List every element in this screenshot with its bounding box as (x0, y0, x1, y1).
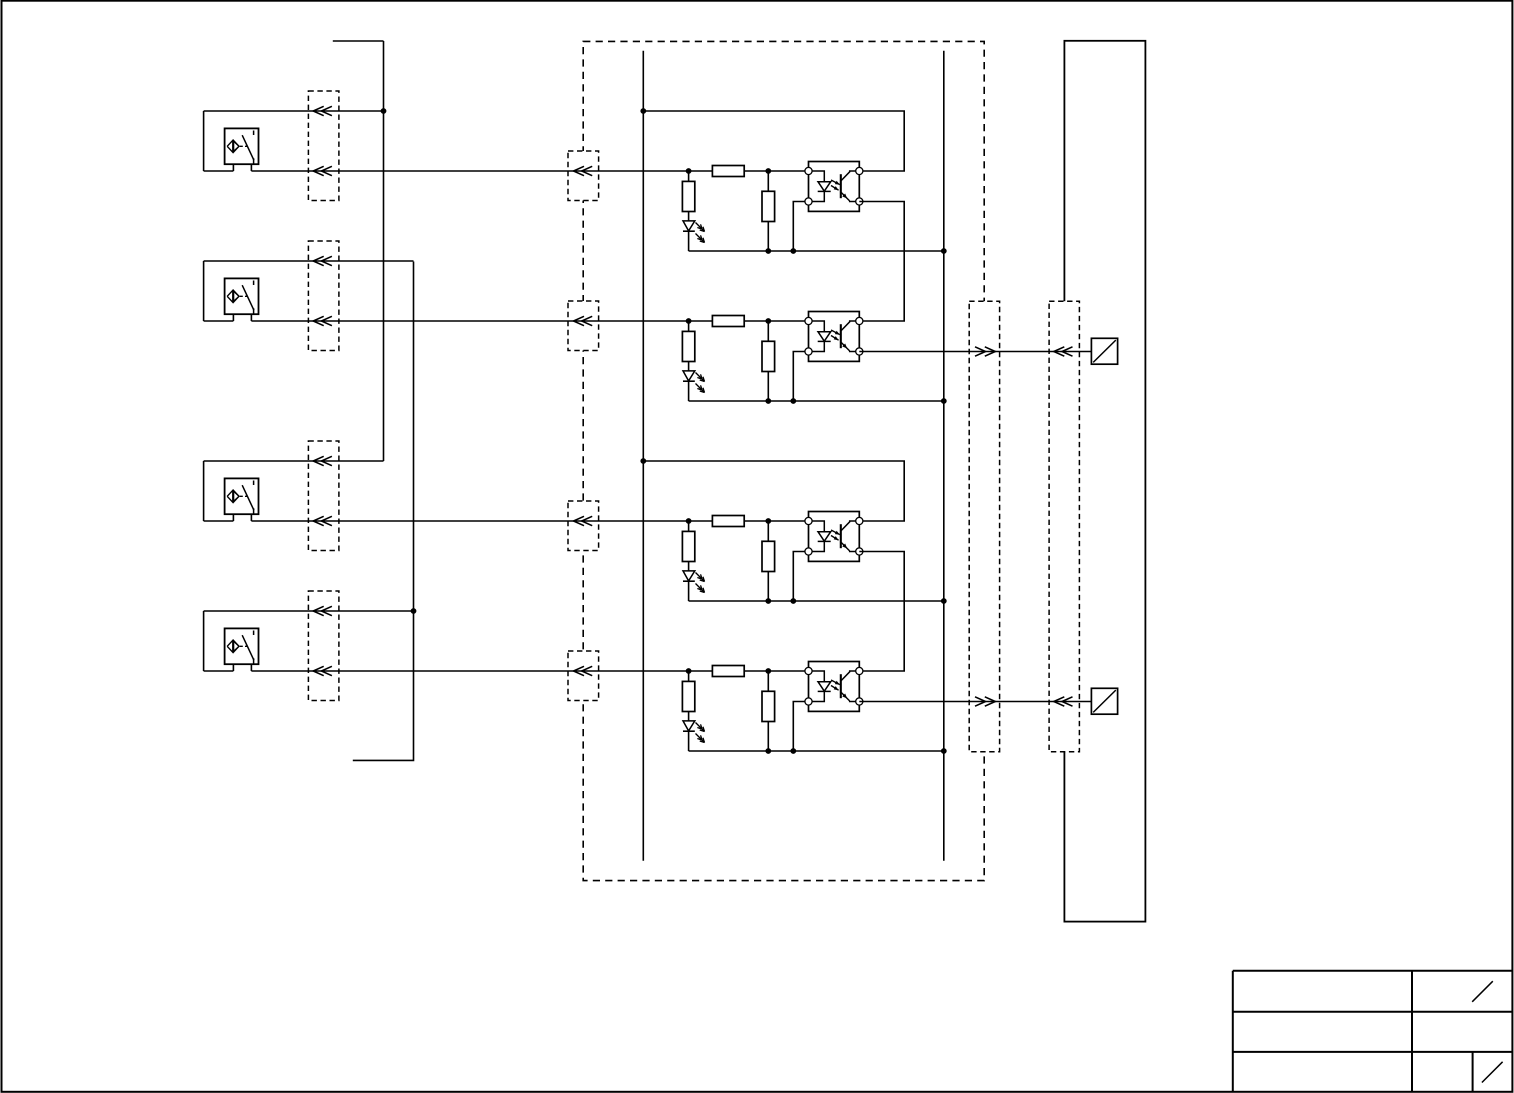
wire 0V return row 2 (689, 400, 944, 402)
connector X11 PCB input terminal (568, 151, 599, 201)
resistor R21 (series) (712, 316, 744, 327)
wire output channel 2 to PLC (859, 701, 1091, 703)
PCB board outline (dashed) (583, 41, 984, 880)
connector X21 PLC input terminal (1049, 301, 1079, 752)
resistor R41 (series) (712, 666, 744, 677)
wire LED D1 cathode down (688, 231, 690, 251)
optocoupler U2 pins (805, 317, 863, 355)
wire LED D3 cathode down (688, 581, 690, 601)
LED D4 status indicator (683, 721, 705, 743)
proximity sensor B3 (204, 461, 259, 521)
wire sensor B4 supply (204, 610, 414, 612)
wire sensor B1 supply (204, 110, 384, 112)
resistor R23 (parallel) (762, 321, 775, 401)
resistor R31 (series) (712, 516, 744, 527)
connector X2 contact arrows (313, 256, 332, 325)
connector X13 contact arrow (574, 516, 593, 525)
PLC input channel 1 symbol (1091, 338, 1117, 364)
wire sensor B2 supply (204, 260, 414, 262)
LED D3 status indicator (683, 571, 705, 593)
optocoupler U3 (809, 512, 860, 562)
wire +V feed group 1 (643, 111, 904, 171)
proximity sensor B1 (204, 111, 259, 171)
connector X12 contact arrow (574, 316, 593, 325)
connector X3 plug-socket (sensor cable) (308, 441, 339, 551)
optocoupler U1 (809, 162, 860, 212)
optocoupler U2 (809, 312, 860, 362)
connector X14 contact arrow (574, 666, 593, 675)
wire optocoupler U3 cathode to 0V (793, 552, 808, 602)
wire optocoupler U4 cathode to 0V (793, 702, 808, 752)
connector X2 plug-socket (sensor cable) (308, 241, 339, 351)
resistor R33 (parallel) (762, 521, 775, 601)
wire 0V return row 1 (689, 250, 944, 252)
wire sensor B3 supply (204, 460, 384, 462)
PLC module outline (1064, 41, 1145, 922)
connector X13 PCB input terminal (568, 501, 599, 551)
wire 0V return row 3 (689, 600, 944, 602)
connector X12 PCB input terminal (568, 301, 599, 351)
wire sensor B3 signal to optocoupler (251, 520, 808, 522)
wire 0V return row 4 (689, 750, 944, 752)
resistor R32 (indicator branch) (682, 521, 694, 571)
resistor R42 (indicator branch) (682, 671, 694, 721)
wire optocoupler U1 cathode to 0V (793, 202, 808, 252)
junction nodes (381, 108, 947, 754)
wire LED D2 cathode down (688, 381, 690, 401)
LED D2 status indicator (683, 371, 705, 393)
connector X3 contact arrows (313, 456, 332, 525)
optocoupler U4 (809, 662, 860, 712)
resistor R43 (parallel) (762, 671, 775, 751)
wire sensor B1 signal to optocoupler (251, 170, 808, 172)
connector X1 contact arrows (313, 106, 332, 175)
wire 0V rail (943, 51, 945, 861)
wire series link from optocoupler U1 emitter (859, 202, 904, 322)
connector X20 contact arrows (975, 347, 995, 706)
wire series link from optocoupler U3 emitter (859, 552, 904, 672)
wire +V feed group 2 (643, 461, 904, 521)
connector X4 contact arrows (313, 606, 332, 675)
resistor R12 (indicator branch) (682, 171, 694, 221)
connector X4 plug-socket (sensor cable) (308, 591, 339, 701)
wire optocoupler U2 cathode to 0V (793, 352, 808, 402)
wire +V rail (642, 51, 644, 861)
resistor R13 (parallel) (762, 171, 775, 251)
wire sensor B4 signal to optocoupler (251, 670, 808, 672)
wire output channel 1 to PLC (859, 351, 1091, 353)
wire sensor B2 signal to optocoupler (251, 320, 808, 322)
title block (1233, 971, 1513, 1092)
proximity sensor B2 (204, 261, 259, 321)
connector X11 contact arrow (574, 166, 593, 175)
wire +V bus 2 vertical (353, 262, 414, 761)
wire LED D4 cathode down (688, 731, 690, 751)
connector X1 plug-socket (sensor cable) (308, 91, 339, 201)
connector X14 PCB input terminal (568, 651, 599, 701)
optocoupler U3 pins (805, 517, 863, 555)
optocoupler U1 pins (805, 167, 863, 205)
wire +V bus 1 vertical (383, 41, 385, 461)
resistor R11 (series) (712, 166, 744, 177)
connector X21 contact arrows (1054, 347, 1073, 706)
resistor R22 (indicator branch) (682, 321, 694, 371)
wire +V bus stub (top left) (333, 40, 384, 42)
connector X20 PCB output terminal (969, 301, 999, 752)
PLC input channel 2 symbol (1091, 688, 1117, 714)
optocoupler U4 pins (805, 667, 863, 705)
proximity sensor B4 (204, 611, 259, 671)
LED D1 status indicator (683, 221, 705, 243)
